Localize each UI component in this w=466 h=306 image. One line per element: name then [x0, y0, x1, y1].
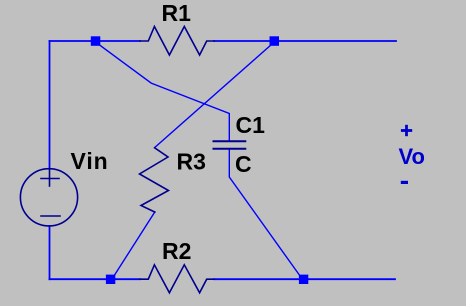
svg-text:R1: R1	[162, 0, 192, 26]
wire top-left horizontal	[50, 40, 141, 42]
svg-text:C1: C1	[236, 112, 266, 138]
svg-text:Vo: Vo	[399, 144, 425, 169]
svg-text:C: C	[235, 151, 252, 177]
wire bottom-right horizontal	[214, 278, 395, 280]
wire left vertical lower	[49, 226, 51, 279]
node D	[106, 275, 115, 284]
resistor R3	[140, 148, 169, 212]
svg-text:R3: R3	[177, 148, 206, 174]
wire bottom-left horizontal	[50, 278, 141, 280]
resistor R1	[140, 27, 214, 56]
label - output	[401, 181, 408, 184]
node A	[91, 36, 101, 46]
resistor R2	[140, 265, 214, 293]
wire resistor R3 bottom to node D	[115, 212, 155, 275]
wire node B to resistor R3 top	[155, 45, 272, 148]
wire left vertical upper	[49, 41, 51, 169]
wire capacitor C1 bottom to node C	[229, 149, 299, 275]
wire node A to capacitor C1 top	[98, 44, 230, 142]
node B	[270, 36, 280, 46]
voltage source Vin	[20, 169, 77, 226]
svg-text:R2: R2	[162, 238, 191, 264]
node C	[299, 275, 308, 284]
svg-text:Vin: Vin	[71, 148, 109, 174]
wire top-right horizontal	[214, 40, 396, 42]
label + output	[405, 125, 408, 136]
capacitor C1 plates	[214, 141, 246, 149]
